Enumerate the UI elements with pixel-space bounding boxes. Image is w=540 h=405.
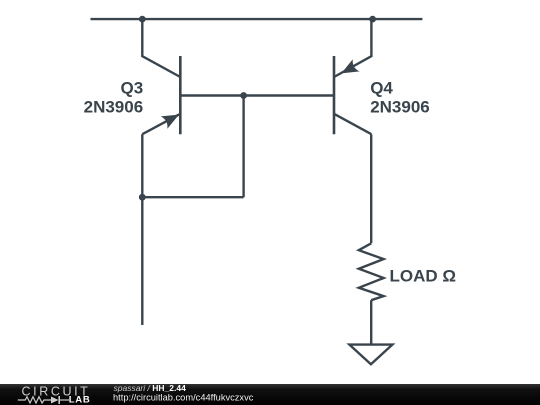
wire top supply rail xyxy=(91,18,423,20)
svg-text:LOAD Ω: LOAD Ω xyxy=(390,267,457,286)
node junction rail-Q3 xyxy=(139,16,146,23)
node junction Q3 emitter xyxy=(139,194,146,201)
wire Q3 emitter stub xyxy=(141,134,143,325)
svg-text:2N3906: 2N3906 xyxy=(84,97,144,116)
transistor Q4 2N3906 xyxy=(334,19,371,134)
node base junction xyxy=(240,92,247,99)
svg-text:Q3: Q3 xyxy=(121,79,144,98)
resistor LOAD xyxy=(359,243,384,300)
wire base Q3 to Q4 xyxy=(180,94,334,96)
wire base to emitter feedback horizontal xyxy=(142,196,243,198)
transistor Q3 2N3906 xyxy=(142,19,180,134)
wire Q4 collector to load resistor xyxy=(370,134,372,243)
wire load to ground xyxy=(370,300,372,344)
svg-text:LAB: LAB xyxy=(69,394,91,405)
svg-text:Q4: Q4 xyxy=(370,79,393,98)
CircuitLab logo xyxy=(18,384,91,405)
node junction rail-Q4 xyxy=(369,16,376,23)
wire base to emitter feedback vertical xyxy=(242,96,244,198)
svg-text:http://circuitlab.com/c44ffukv: http://circuitlab.com/c44ffukvczxvc xyxy=(113,392,254,402)
ground symbol xyxy=(349,345,392,365)
svg-text:2N3906: 2N3906 xyxy=(370,97,430,116)
